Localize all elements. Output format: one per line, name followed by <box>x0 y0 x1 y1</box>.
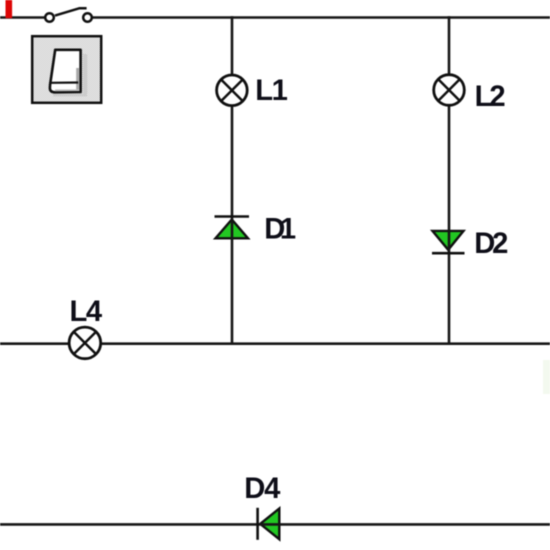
svg-text:D2: D2 <box>474 228 508 260</box>
svg-text:L1: L1 <box>255 75 288 107</box>
svg-text:L2: L2 <box>475 81 506 113</box>
svg-text:D4: D4 <box>244 473 281 505</box>
svg-text:L4: L4 <box>70 296 103 328</box>
svg-text:D1: D1 <box>264 214 296 246</box>
